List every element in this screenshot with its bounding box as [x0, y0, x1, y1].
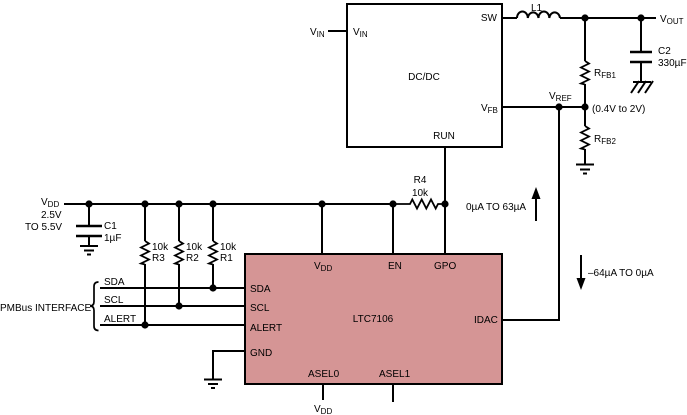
- wire RUN to R4 node: [444, 147, 446, 204]
- node R2 junction: [175, 200, 182, 207]
- wire RFB2 to ground: [584, 149, 586, 164]
- svg-text:LTC7106: LTC7106: [353, 314, 394, 325]
- capacitor C2: [630, 52, 652, 62]
- svg-text:10k: 10k: [220, 242, 237, 253]
- wire GND pin to ground: [213, 351, 245, 379]
- svg-text:10k: 10k: [412, 188, 429, 199]
- arrow up 0uA to 63uA: [535, 196, 537, 221]
- ground under GND pin: [204, 380, 222, 389]
- svg-text:TO 5.5V: TO 5.5V: [25, 222, 62, 233]
- wire VDD pin: [321, 204, 323, 254]
- svg-text:IDAC: IDAC: [474, 315, 498, 326]
- node R3 junction: [141, 200, 148, 207]
- node GPO-RUN-R4 junction: [441, 200, 448, 207]
- wire R3 to ALERT: [144, 264, 146, 325]
- svg-text:10k: 10k: [186, 242, 203, 253]
- svg-text:DC/DC: DC/DC: [408, 72, 440, 83]
- wire C2 branch: [640, 18, 642, 51]
- svg-text:PMBus INTERFACE: PMBus INTERFACE: [0, 303, 91, 314]
- svg-text:SDA: SDA: [250, 284, 271, 295]
- wire R1 top lead: [212, 204, 214, 241]
- resistor RFB2: [581, 126, 589, 150]
- node EN-R4 junction: [389, 200, 396, 207]
- node C1 junction: [85, 200, 92, 207]
- svg-text:ALERT: ALERT: [104, 314, 136, 325]
- svg-text:GND: GND: [250, 348, 272, 359]
- brace PMBus interface: [90, 282, 99, 331]
- svg-text:C2: C2: [658, 46, 671, 57]
- node R2-SCL junction: [175, 302, 182, 309]
- wire SCL line: [100, 305, 246, 307]
- svg-text:L1: L1: [531, 3, 543, 14]
- svg-text:(0.4V to 2V): (0.4V to 2V): [592, 104, 645, 115]
- node SW-L1-RFB1 junction: [581, 14, 588, 21]
- node VREF junction: [555, 103, 562, 110]
- svg-text:ALERT: ALERT: [250, 323, 282, 334]
- wire R2 to SCL: [178, 264, 180, 306]
- wire RFB1 bottom lead: [584, 84, 586, 107]
- svg-text:SW: SW: [481, 13, 498, 24]
- wire C1 to ground: [88, 237, 90, 245]
- wire VIN input: [328, 30, 347, 32]
- wire ASEL1 open: [392, 384, 394, 402]
- node R3-ALERT junction: [141, 321, 148, 328]
- wire VDD rail: [64, 203, 393, 205]
- svg-text:R1: R1: [220, 253, 233, 264]
- node VOUT-C2 junction: [637, 14, 644, 21]
- svg-text:C1: C1: [104, 221, 117, 232]
- svg-text:GPO: GPO: [434, 261, 456, 272]
- wire EN pin: [392, 204, 394, 254]
- wire R1 to SDA: [212, 264, 214, 288]
- svg-text:10k: 10k: [152, 242, 169, 253]
- wire IDAC to VREF: [502, 107, 559, 320]
- wire SW to L1: [502, 17, 517, 19]
- chassis ground under C2: [631, 81, 653, 93]
- wire R3 top lead: [144, 204, 146, 241]
- wire RFB1 top lead: [584, 18, 586, 61]
- arrow down -64uA to 0uA: [580, 255, 582, 280]
- svg-text:EN: EN: [388, 261, 402, 272]
- resistor R4: [393, 200, 445, 209]
- svg-text:SDA: SDA: [104, 277, 125, 288]
- wire L1 to VOUT: [560, 17, 656, 19]
- node VDD pin junction: [318, 200, 325, 207]
- node R1-SDA junction: [209, 284, 216, 291]
- svg-text:SCL: SCL: [250, 303, 270, 314]
- svg-text:–64µA TO 0µA: –64µA TO 0µA: [588, 268, 654, 279]
- wire GPO pin: [444, 204, 446, 254]
- resistor R2: [175, 241, 183, 265]
- wire R2 top lead: [178, 204, 180, 241]
- LTC7106 IC U1: [245, 254, 502, 384]
- svg-text:R2: R2: [186, 253, 199, 264]
- svg-text:ASEL1: ASEL1: [379, 369, 411, 380]
- wire RFB2 top lead: [584, 107, 586, 126]
- svg-text:R3: R3: [152, 253, 165, 264]
- ground under RFB2: [576, 165, 594, 174]
- svg-text:2.5V: 2.5V: [41, 210, 62, 221]
- node VFB-RFB junction: [581, 103, 588, 110]
- svg-text:330µF: 330µF: [658, 58, 687, 69]
- resistor RFB1: [581, 61, 589, 85]
- capacitor C1: [76, 226, 102, 236]
- wire VFB to VREF node: [502, 106, 585, 108]
- node R1 junction: [209, 200, 216, 207]
- resistor R3: [141, 241, 149, 265]
- svg-text:ASEL0: ASEL0: [308, 369, 340, 380]
- wire ALERT line: [100, 324, 246, 326]
- svg-text:R4: R4: [414, 175, 427, 186]
- wire SDA line: [100, 287, 246, 289]
- wire C1 branch: [88, 204, 90, 225]
- resistor R1: [209, 241, 217, 265]
- DC/DC converter block U2: [347, 4, 502, 147]
- ground under C1: [80, 246, 98, 255]
- inductor L1: [517, 12, 560, 19]
- wire ASEL0 to VDD: [322, 384, 324, 400]
- svg-text:SCL: SCL: [104, 295, 124, 306]
- wire C2 to ground: [640, 63, 642, 82]
- svg-text:1µF: 1µF: [104, 233, 121, 244]
- svg-text:0µA TO 63µA: 0µA TO 63µA: [466, 202, 526, 213]
- svg-text:RUN: RUN: [433, 131, 455, 142]
